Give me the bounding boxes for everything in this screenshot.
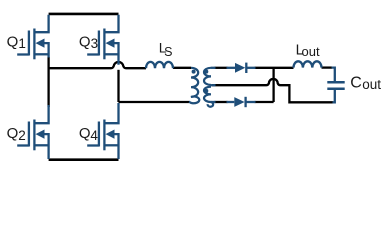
bottom rail xyxy=(49,158,119,161)
transistor Q4 xyxy=(87,103,118,159)
secondary top lead xyxy=(211,67,216,69)
Q3 channel bar xyxy=(103,29,105,60)
svg-text:C: C xyxy=(350,74,362,91)
Q2 source lead xyxy=(34,144,48,146)
Q3 gate lead xyxy=(87,53,99,55)
primary polarity dot xyxy=(192,70,196,74)
wire Lout to Cout xyxy=(322,66,333,68)
node A horizontal wire with hop over node B vertical xyxy=(48,62,147,68)
D2 anode lead xyxy=(227,101,235,103)
svg-text:1: 1 xyxy=(18,36,26,51)
Cout top plate xyxy=(327,81,344,84)
svg-text:Q: Q xyxy=(7,34,19,51)
D2 cathode bar xyxy=(244,97,246,107)
Q4 source lead xyxy=(104,144,118,146)
diode D2 (bottom rectifier) xyxy=(227,97,256,107)
svg-text:out: out xyxy=(302,44,320,59)
svg-text:4: 4 xyxy=(90,128,98,143)
Cout top lead xyxy=(332,68,335,81)
transformer secondary upper winding xyxy=(204,68,211,85)
transistor Q2 xyxy=(17,105,48,159)
Q1 source lead xyxy=(34,53,48,55)
Q1 gate bar xyxy=(28,31,30,56)
Q2 drain lead xyxy=(34,105,48,123)
Q1 drain lead xyxy=(34,15,48,32)
D1 triangle xyxy=(235,63,245,73)
svg-text:Q: Q xyxy=(7,125,19,142)
secondary top wire black segment xyxy=(215,67,228,69)
junction vertical joining diode outputs xyxy=(272,68,274,102)
Q3 gate bar xyxy=(98,31,100,56)
center tap wire with hop over junction vertical, down leg and bottom run xyxy=(212,79,333,102)
svg-text:2: 2 xyxy=(18,128,26,143)
Q4 channel bar xyxy=(103,120,105,151)
Q4 gate bar xyxy=(98,122,100,147)
Cout bottom lead xyxy=(333,90,335,102)
Q4 drain lead xyxy=(104,103,118,123)
Q2 channel bar xyxy=(33,120,35,151)
Q3 arrow and source drop into hop gap xyxy=(115,43,119,65)
Q4 arrow xyxy=(115,134,119,159)
diode D1 (top rectifier) xyxy=(227,63,256,73)
wire Ls to transformer primary top xyxy=(173,67,191,69)
Q3 drain lead xyxy=(104,15,118,32)
center tap lead xyxy=(211,84,216,86)
secondary lower polarity dot xyxy=(204,89,208,93)
transformer primary winding xyxy=(189,68,199,103)
node B vertical wire (black, below hop to corner) xyxy=(117,70,119,102)
secondary bottom lead xyxy=(211,101,216,103)
svg-text:3: 3 xyxy=(91,36,99,51)
inductor Lout xyxy=(293,61,321,67)
Cout bottom plate xyxy=(327,88,344,91)
secondary bottom wire black segment xyxy=(215,101,228,103)
D2 cathode lead xyxy=(246,101,256,103)
D2 triangle xyxy=(234,97,244,107)
capacitor Cout xyxy=(327,68,344,103)
secondary upper polarity dot xyxy=(204,70,208,74)
transistor Q1 xyxy=(17,15,48,60)
svg-text:Q: Q xyxy=(79,125,91,142)
node B horizontal wire to transformer primary bottom xyxy=(119,101,190,103)
Q2 arrow xyxy=(45,134,49,159)
D1 cathode bar xyxy=(245,63,247,73)
D1 anode lead xyxy=(227,67,236,69)
Q2 gate lead xyxy=(17,144,29,146)
Q3 source lead xyxy=(104,53,118,55)
Q1 channel bar xyxy=(33,29,35,60)
D1 cathode lead xyxy=(246,67,255,69)
transformer secondary lower winding xyxy=(204,87,213,107)
Q1 gate lead xyxy=(17,53,29,55)
transistor Q3 xyxy=(87,15,118,65)
top rail xyxy=(49,13,119,16)
svg-text:S: S xyxy=(164,45,172,59)
top diode output wire to Lout xyxy=(255,67,294,69)
Q1 arrow xyxy=(45,43,49,57)
bottom diode output wire to junction xyxy=(255,101,274,103)
Q4 gate lead xyxy=(87,144,99,146)
node A vertical wire (Q1 source to Q2 drain, black middle) xyxy=(47,57,49,107)
Q2 gate bar xyxy=(28,122,30,147)
svg-text:Q: Q xyxy=(79,34,91,51)
inductor Ls xyxy=(146,62,173,68)
svg-text:out: out xyxy=(362,77,381,92)
